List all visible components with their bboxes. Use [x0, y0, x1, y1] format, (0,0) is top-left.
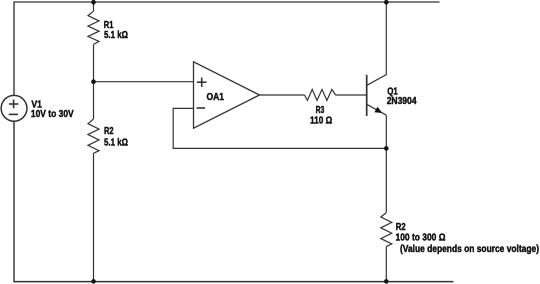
svg-text:2N3904: 2N3904: [387, 96, 417, 107]
svg-text:(Value depends on source volta: (Value depends on source voltage): [400, 244, 539, 255]
svg-text:5.1 kΩ: 5.1 kΩ: [104, 138, 128, 149]
svg-text:100 to 300 Ω: 100 to 300 Ω: [396, 232, 446, 243]
svg-text:OA1: OA1: [207, 92, 225, 103]
svg-text:5.1 kΩ: 5.1 kΩ: [104, 30, 128, 41]
svg-text:110 Ω: 110 Ω: [310, 115, 332, 126]
svg-text:R2: R2: [104, 126, 114, 137]
svg-text:10V to 30V: 10V to 30V: [31, 109, 74, 120]
